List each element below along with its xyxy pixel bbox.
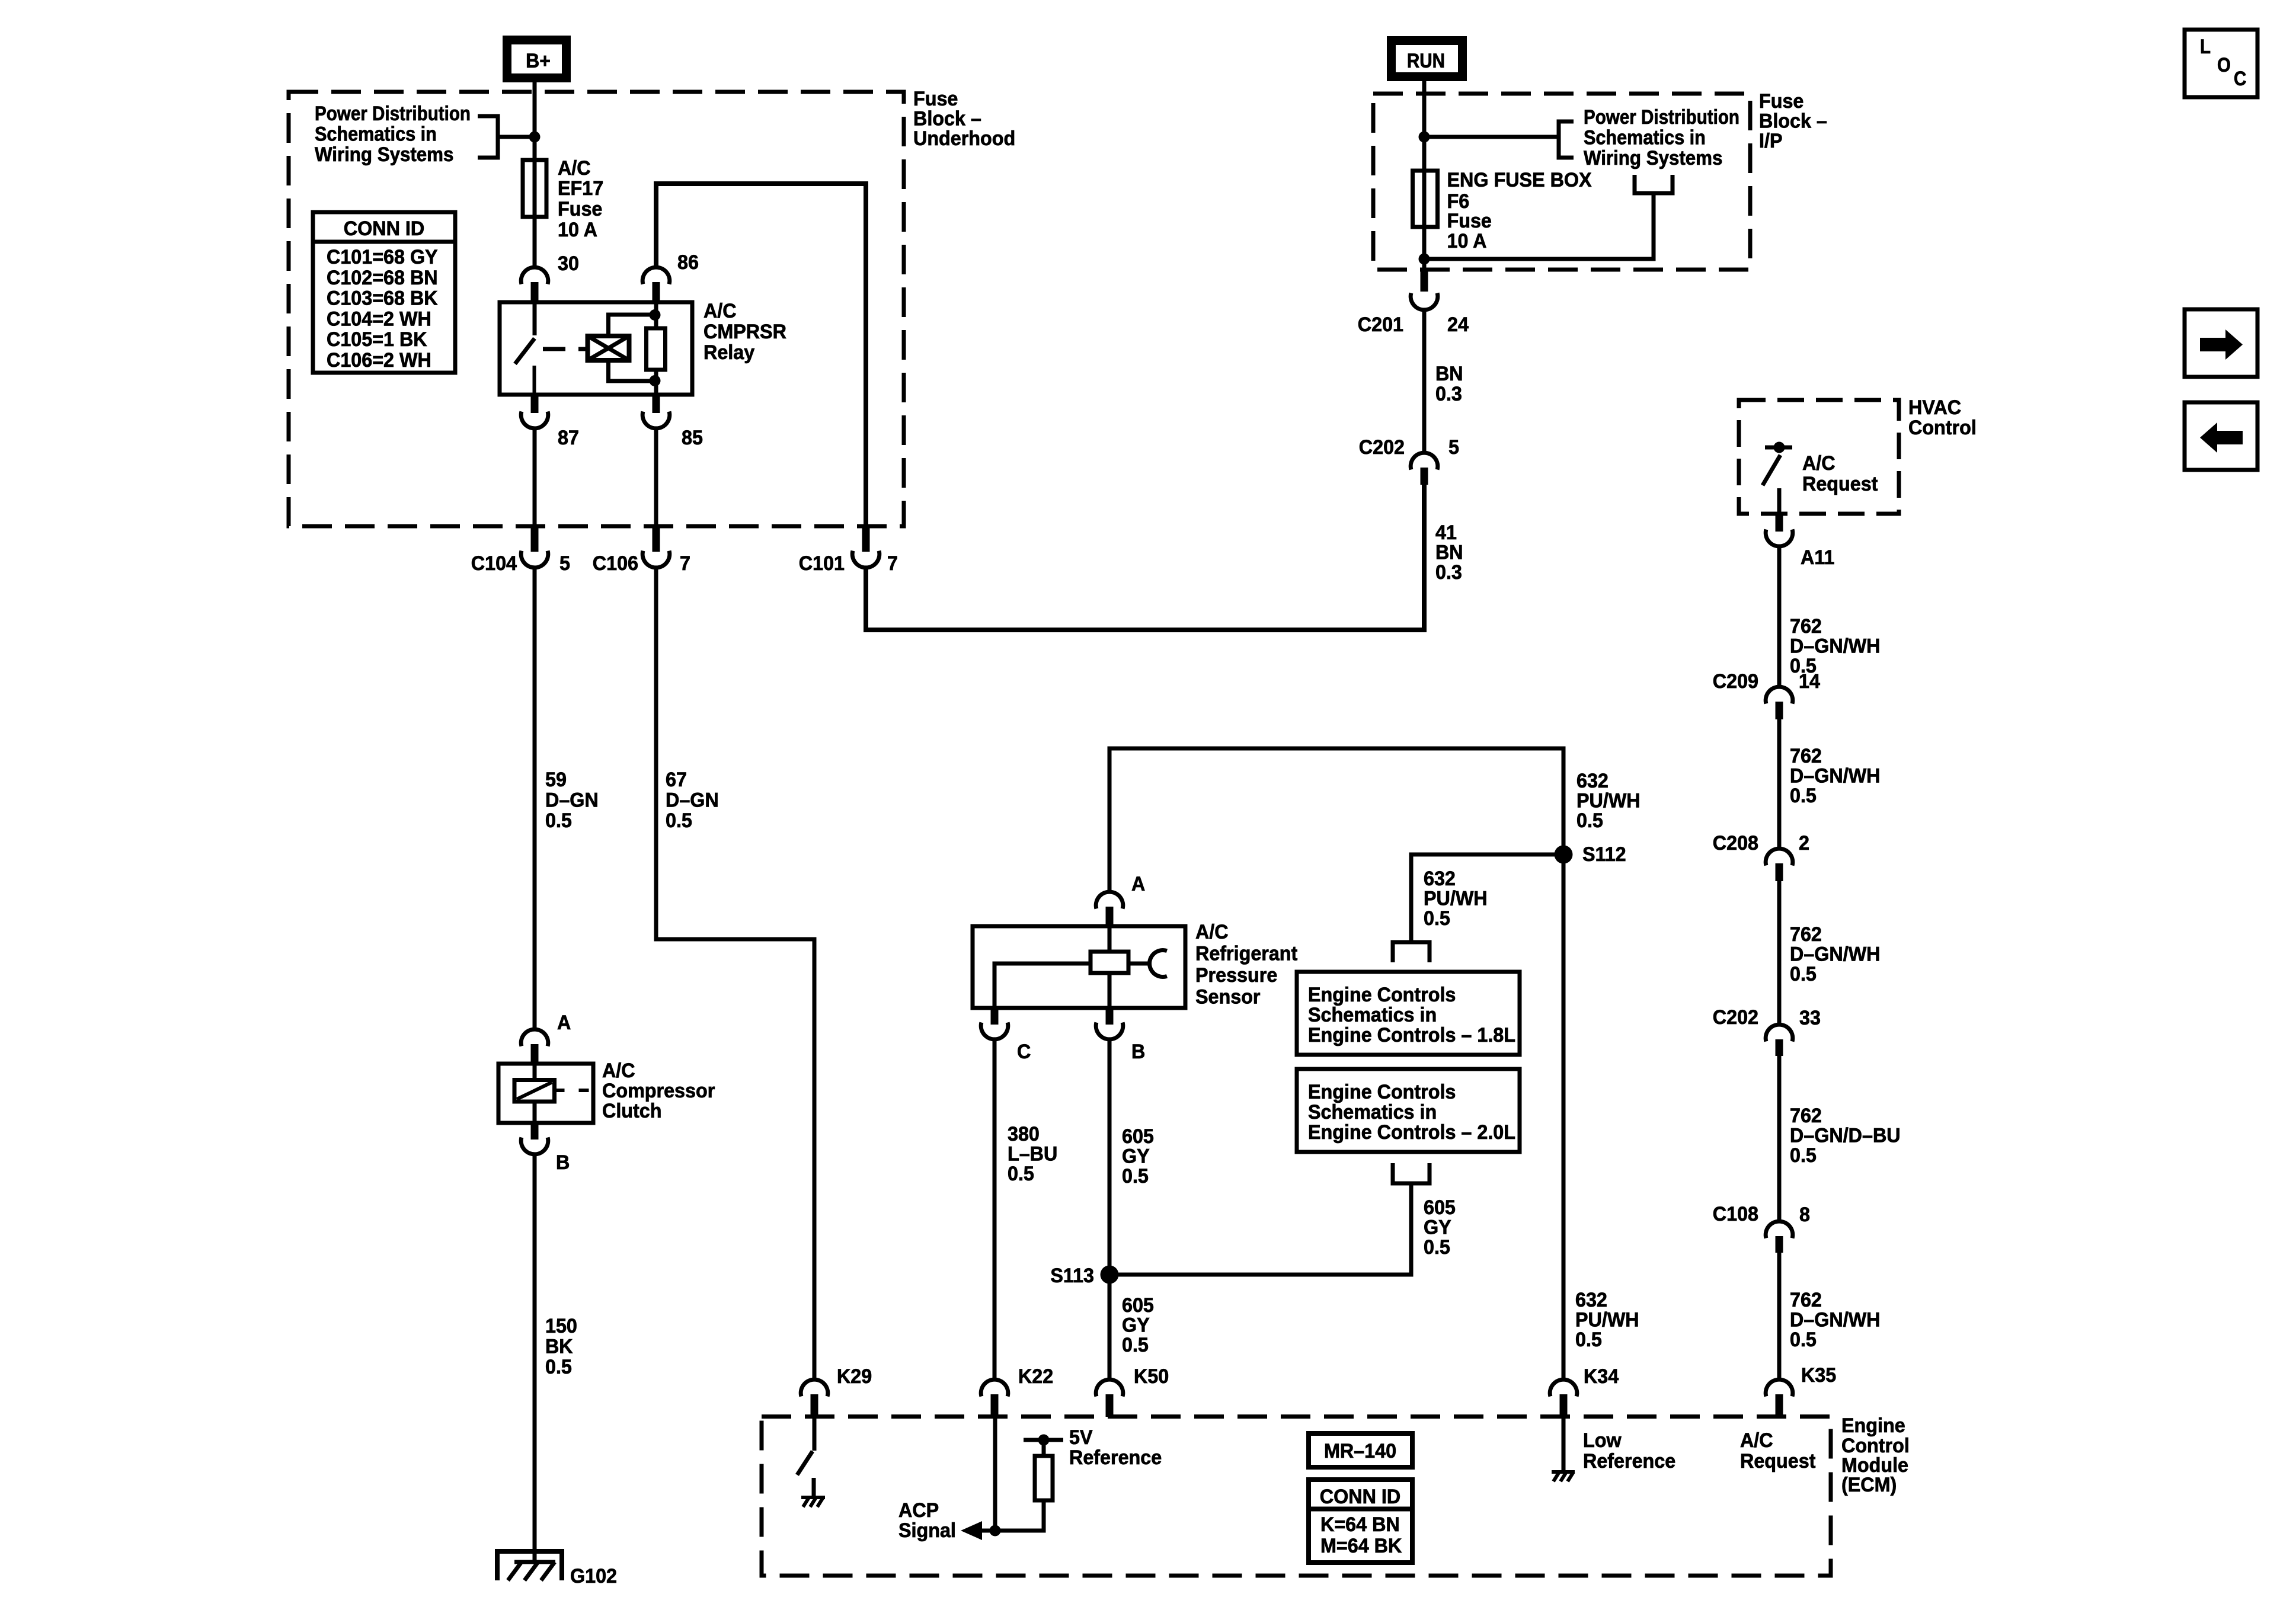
- junction dot coil top: [650, 309, 661, 321]
- label A/C refrigerant pressure sensor: [1195, 921, 1297, 1009]
- svg-text:33: 33: [1799, 1007, 1821, 1029]
- conn id table (ecm): [1309, 1480, 1412, 1563]
- svg-text:Engine Controls – 1.8L: Engine Controls – 1.8L: [1308, 1024, 1515, 1046]
- wire 762 to C108: [1777, 1056, 1782, 1221]
- svg-text:632: 632: [1575, 1289, 1607, 1311]
- label ACP Signal: [898, 1499, 956, 1542]
- svg-text:MR–140: MR–140: [1324, 1440, 1396, 1462]
- connector C104: [521, 528, 548, 568]
- A/C refrigerant pressure sensor box: [973, 926, 1185, 1008]
- svg-text:Fuse: Fuse: [913, 88, 958, 110]
- svg-text:S113: S113: [1050, 1265, 1094, 1287]
- label 5V Reference: [1069, 1426, 1162, 1469]
- svg-text:632: 632: [1576, 770, 1609, 792]
- svg-text:K=64 BN: K=64 BN: [1320, 1513, 1400, 1536]
- label A/C Compressor Clutch: [602, 1060, 715, 1122]
- off-page bracket below note: [1635, 175, 1673, 193]
- wire 762 to C208: [1777, 719, 1782, 849]
- svg-text:0.5: 0.5: [1576, 809, 1603, 832]
- svg-text:A/C: A/C: [1740, 1429, 1773, 1452]
- svg-text:C108: C108: [1713, 1203, 1758, 1225]
- svg-text:Refrigerant: Refrigerant: [1195, 943, 1297, 965]
- svg-text:C101=68 GY: C101=68 GY: [327, 246, 438, 268]
- svg-text:CMPRSR: CMPRSR: [703, 321, 786, 343]
- svg-text:10 A: 10 A: [1447, 230, 1487, 252]
- connector pin B of clutch: [521, 1123, 548, 1154]
- svg-text:Wiring Systems: Wiring Systems: [315, 143, 453, 166]
- svg-text:0.5: 0.5: [1790, 785, 1817, 807]
- svg-text:86: 86: [677, 251, 699, 274]
- svg-text:(ECM): (ECM): [1841, 1474, 1897, 1496]
- wire B+ to fuse EF17: [533, 82, 537, 267]
- svg-text:O: O: [2217, 54, 2231, 76]
- svg-text:C103=68 BK: C103=68 BK: [327, 287, 438, 310]
- wire ACP junction to resistor: [981, 1529, 1046, 1533]
- wire 41 BN 0.3 to C101 loop: [866, 485, 1424, 632]
- relay switch contact: [515, 302, 535, 395]
- sensor element: [994, 926, 1167, 1008]
- connector pin 85 of relay: [642, 393, 670, 428]
- svg-text:30: 30: [558, 252, 579, 275]
- svg-text:K34: K34: [1584, 1365, 1619, 1388]
- svg-text:C201: C201: [1358, 313, 1403, 336]
- label 762 D-GN/D-BU 0.5: [1790, 1105, 1901, 1167]
- switch pivot dot: [1774, 442, 1785, 453]
- back arrow box: [2185, 402, 2257, 470]
- fuse block I/P dashed box: [1373, 94, 1750, 270]
- svg-text:150: 150: [545, 1315, 577, 1337]
- svg-text:Fuse: Fuse: [1759, 90, 1803, 113]
- svg-text:Control: Control: [1908, 417, 1977, 439]
- svg-text:0.5: 0.5: [1790, 1329, 1817, 1351]
- connector K34: [1550, 1379, 1577, 1417]
- label fuse block underhood: [913, 88, 1015, 150]
- svg-text:K50: K50: [1134, 1365, 1169, 1388]
- svg-text:A: A: [1131, 873, 1145, 895]
- svg-text:C102=68 BN: C102=68 BN: [327, 267, 438, 289]
- svg-text:762: 762: [1790, 745, 1822, 767]
- svg-text:Wiring Systems: Wiring Systems: [1584, 147, 1722, 169]
- svg-text:Reference: Reference: [1583, 1450, 1675, 1473]
- wire 762 to C202: [1777, 881, 1782, 1025]
- label 605 GY 0.5 (sensor B): [1122, 1125, 1154, 1188]
- wire pin 87 to C104: [533, 428, 537, 526]
- svg-text:0.5: 0.5: [1790, 963, 1817, 985]
- relay linkage dashed line: [543, 347, 587, 351]
- svg-text:Schematics in: Schematics in: [1308, 1101, 1437, 1124]
- svg-text:Block –: Block –: [913, 108, 981, 130]
- HVAC control dashed box: [1739, 400, 1899, 514]
- label C101 7: [799, 552, 898, 575]
- wire S112 branch to engine controls: [1411, 854, 1563, 942]
- power symbol B+: [507, 40, 567, 78]
- fuse EF17: [523, 160, 546, 217]
- svg-text:Block –: Block –: [1759, 110, 1827, 133]
- svg-text:C202: C202: [1359, 436, 1405, 459]
- svg-text:Low: Low: [1583, 1429, 1622, 1452]
- label C201 24: [1358, 313, 1469, 336]
- svg-text:41: 41: [1435, 521, 1457, 544]
- A/C compressor clutch box: [498, 1064, 593, 1123]
- svg-text:0.5: 0.5: [1424, 907, 1450, 930]
- wire 605 GY sensor B to S113 to K50: [1108, 1039, 1112, 1379]
- off-page bracket below 2.0L box: [1393, 1163, 1430, 1183]
- label fuse block I/P: [1759, 90, 1827, 152]
- svg-text:D–GN/WH: D–GN/WH: [1790, 943, 1881, 966]
- svg-text:B: B: [556, 1151, 570, 1174]
- svg-text:GY: GY: [1424, 1217, 1451, 1239]
- connector pin C of sensor: [981, 1008, 1008, 1039]
- connector K50: [1096, 1379, 1123, 1417]
- svg-text:A/C: A/C: [602, 1060, 635, 1082]
- svg-text:B: B: [1131, 1041, 1145, 1063]
- ACP signal arrow: [961, 1521, 982, 1540]
- svg-text:C101: C101: [799, 552, 845, 575]
- svg-text:7: 7: [887, 552, 898, 575]
- svg-text:D–GN: D–GN: [666, 789, 719, 812]
- svg-text:0.5: 0.5: [1575, 1329, 1602, 1351]
- junction dot fuse output: [1419, 254, 1430, 265]
- engine controls 1.8L reference box: [1297, 972, 1520, 1055]
- svg-text:0.5: 0.5: [545, 1356, 572, 1378]
- svg-text:0.5: 0.5: [1008, 1163, 1034, 1185]
- svg-text:Compressor: Compressor: [602, 1080, 715, 1102]
- svg-text:C106: C106: [593, 552, 638, 575]
- K29 internal switch to ground: [797, 1416, 825, 1507]
- connector pin A of clutch: [521, 1029, 548, 1064]
- connector C209: [1766, 687, 1793, 719]
- A/C CMPRSR relay box: [500, 302, 692, 395]
- svg-text:0.3: 0.3: [1435, 561, 1462, 584]
- svg-text:D–GN/WH: D–GN/WH: [1790, 635, 1881, 658]
- svg-text:0.5: 0.5: [545, 809, 572, 832]
- label 59 D-GN 0.5: [545, 769, 599, 832]
- svg-text:762: 762: [1790, 1289, 1822, 1311]
- label HVAC Control: [1908, 396, 1977, 439]
- off-page bracket above 1.8L box: [1393, 942, 1430, 962]
- svg-text:BN: BN: [1435, 542, 1463, 564]
- svg-text:C208: C208: [1713, 832, 1758, 854]
- svg-text:CONN ID: CONN ID: [1320, 1486, 1400, 1508]
- svg-text:D–GN: D–GN: [545, 789, 599, 812]
- connector C101: [852, 528, 880, 568]
- wire 150 BK to ground: [533, 1154, 537, 1562]
- svg-text:G102: G102: [570, 1565, 617, 1587]
- svg-text:Request: Request: [1802, 473, 1878, 495]
- svg-text:Engine Controls: Engine Controls: [1308, 1081, 1456, 1103]
- svg-text:A/C: A/C: [1195, 921, 1229, 943]
- connector pin 30 of relay: [521, 267, 548, 302]
- svg-text:PU/WH: PU/WH: [1575, 1309, 1639, 1331]
- svg-text:Schematics in: Schematics in: [1308, 1004, 1437, 1026]
- svg-text:K29: K29: [837, 1365, 872, 1388]
- label C208 2: [1713, 832, 1809, 854]
- label engine control module ECM: [1841, 1414, 1910, 1496]
- svg-text:Relay: Relay: [703, 341, 754, 364]
- ECM pull-up resistor: [1035, 1440, 1053, 1531]
- label C104 5: [471, 552, 570, 575]
- wire 762 to C209: [1777, 546, 1782, 687]
- svg-text:L–BU: L–BU: [1008, 1143, 1057, 1166]
- connector pin 87 of relay: [521, 393, 548, 428]
- 5V reference terminal tick: [1024, 1438, 1063, 1442]
- svg-text:762: 762: [1790, 615, 1822, 638]
- junction dot on B+ wire: [529, 132, 541, 143]
- label Low Reference: [1583, 1429, 1675, 1473]
- ground G102: [497, 1551, 562, 1580]
- svg-text:Engine Controls: Engine Controls: [1308, 984, 1456, 1006]
- label 632 PU/WH 0.5 (upper): [1576, 770, 1641, 832]
- svg-text:ACP: ACP: [898, 1499, 939, 1522]
- connector K29: [801, 1379, 828, 1417]
- svg-text:C202: C202: [1713, 1006, 1758, 1029]
- label 762 D-GN/WH 0.5 (d): [1790, 1289, 1881, 1351]
- label engine controls 2.0L: [1308, 1081, 1515, 1144]
- svg-text:605: 605: [1122, 1294, 1154, 1317]
- svg-text:A: A: [557, 1012, 571, 1034]
- connector K22: [981, 1379, 1008, 1417]
- svg-text:5V: 5V: [1069, 1426, 1093, 1449]
- junction dot run wire: [1419, 132, 1430, 143]
- svg-text:L: L: [2200, 36, 2211, 58]
- svg-text:762: 762: [1790, 1105, 1822, 1127]
- conn id table: [313, 212, 455, 373]
- svg-text:D–GN/WH: D–GN/WH: [1790, 765, 1881, 788]
- label ENG FUSE BOX F6 Fuse 10 A: [1447, 169, 1592, 252]
- connector C106: [642, 528, 670, 568]
- connector C202 (hvac chain): [1766, 1025, 1793, 1056]
- svg-text:10 A: 10 A: [558, 219, 597, 241]
- label 41 BN 0.3: [1435, 521, 1463, 584]
- wire relay pin 86 loop to C101: [656, 184, 866, 526]
- engine controls 2.0L reference box: [1297, 1069, 1520, 1152]
- svg-text:0.5: 0.5: [1122, 1165, 1149, 1188]
- svg-text:D–GN/WH: D–GN/WH: [1790, 1309, 1881, 1331]
- connector C208: [1766, 849, 1793, 881]
- power symbol RUN: [1392, 41, 1463, 77]
- svg-text:C: C: [1017, 1041, 1031, 1063]
- engine control module dashed box: [762, 1417, 1831, 1576]
- connector A11: [1766, 514, 1793, 546]
- svg-text:Schematics in: Schematics in: [315, 123, 437, 146]
- wire BN 0.3: [1422, 309, 1427, 453]
- svg-text:S112: S112: [1582, 843, 1626, 866]
- svg-text:Underhood: Underhood: [913, 127, 1015, 150]
- svg-text:A/C: A/C: [558, 157, 591, 180]
- label 762 D-GN/WH 0.5 (b): [1790, 745, 1881, 807]
- fuse block underhood dashed box: [289, 92, 904, 526]
- svg-text:0.5: 0.5: [1122, 1334, 1149, 1356]
- forward arrow box: [2185, 309, 2257, 377]
- A/C request switch: [1763, 447, 1792, 514]
- svg-text:380: 380: [1008, 1123, 1040, 1145]
- label 632 PU/WH 0.5 (lower): [1575, 1289, 1639, 1351]
- svg-text:GY: GY: [1122, 1314, 1150, 1337]
- connector pin A of sensor: [1096, 892, 1123, 926]
- svg-text:D–GN/D–BU: D–GN/D–BU: [1790, 1125, 1901, 1147]
- svg-text:14: 14: [1799, 670, 1820, 693]
- svg-text:0.3: 0.3: [1435, 383, 1462, 405]
- svg-text:C106=2 WH: C106=2 WH: [327, 349, 431, 372]
- connector pin B of sensor: [1096, 1008, 1123, 1039]
- wire 762 to K35: [1777, 1253, 1782, 1379]
- junction dot 5V: [1038, 1435, 1050, 1446]
- svg-text:BN: BN: [1435, 363, 1463, 385]
- svg-text:Power Distribution: Power Distribution: [1584, 106, 1739, 129]
- bracket to note (right): [1559, 121, 1574, 158]
- note: power distribution schematics in wiring systems (left): [315, 103, 471, 166]
- label C202 33: [1713, 1006, 1821, 1029]
- svg-text:67: 67: [666, 769, 687, 791]
- svg-text:A/C: A/C: [703, 300, 737, 322]
- label 762 D-GN/WH 0.5 (a): [1790, 615, 1881, 677]
- svg-text:RUN: RUN: [1407, 50, 1445, 72]
- connector C201: [1411, 270, 1438, 310]
- svg-text:CONN ID: CONN ID: [344, 217, 424, 240]
- svg-text:762: 762: [1790, 923, 1822, 946]
- svg-text:C104=2 WH: C104=2 WH: [327, 308, 431, 330]
- label 150 BK 0.5: [545, 1315, 577, 1378]
- label C108 8: [1713, 1203, 1810, 1226]
- svg-text:HVAC: HVAC: [1908, 396, 1961, 419]
- svg-text:5: 5: [559, 552, 570, 575]
- svg-text:0.5: 0.5: [1790, 1144, 1817, 1167]
- svg-text:0.5: 0.5: [1424, 1236, 1450, 1259]
- svg-text:Pressure: Pressure: [1195, 964, 1277, 987]
- label 762 D-GN/WH 0.5 (c): [1790, 923, 1881, 985]
- label BN 0.3: [1435, 363, 1463, 405]
- wire sensor pin A to S112 to K34: [1109, 748, 1563, 1379]
- svg-text:C105=1 BK: C105=1 BK: [327, 328, 427, 351]
- label engine controls 1.8L: [1308, 984, 1515, 1046]
- svg-text:85: 85: [682, 427, 703, 449]
- svg-text:C104: C104: [471, 552, 517, 575]
- label A/C Request (hvac): [1802, 452, 1878, 495]
- wire 380 L-BU to K22: [993, 1039, 997, 1379]
- svg-text:PU/WH: PU/WH: [1424, 888, 1488, 910]
- svg-text:K22: K22: [1018, 1365, 1053, 1388]
- svg-text:8: 8: [1799, 1204, 1810, 1226]
- wire 67 D-GN from C106 to K29: [656, 567, 814, 1379]
- fuse F6: [1413, 171, 1438, 227]
- LOC reference box: [2185, 30, 2257, 97]
- svg-text:ENG FUSE BOX: ENG FUSE BOX: [1447, 169, 1592, 191]
- svg-text:24: 24: [1447, 313, 1469, 336]
- wire RUN to fuse F6: [1422, 81, 1427, 270]
- svg-text:87: 87: [558, 427, 579, 449]
- svg-text:C209: C209: [1713, 670, 1758, 693]
- svg-text:B+: B+: [526, 50, 551, 72]
- junction dot ACP: [990, 1525, 1001, 1537]
- label A/C Request (ecm): [1740, 1429, 1815, 1473]
- label C209 14: [1713, 670, 1820, 693]
- connector pin 86 of relay: [642, 267, 670, 302]
- MR-140 box: [1309, 1433, 1412, 1467]
- label 632 PU/WH 0.5 (branch): [1424, 868, 1488, 930]
- label 67 D-GN 0.5: [666, 769, 719, 832]
- svg-text:EF17: EF17: [558, 177, 603, 200]
- clutch coil element: [514, 1064, 593, 1123]
- svg-text:Engine: Engine: [1841, 1414, 1905, 1437]
- relay resistor: [647, 302, 666, 395]
- label 380 L-BU 0.5: [1008, 1123, 1057, 1185]
- svg-text:7: 7: [680, 552, 690, 575]
- splice S112: [1555, 846, 1573, 864]
- connector C202: [1411, 453, 1438, 485]
- note: power distribution schematics in wiring systems (right): [1584, 106, 1739, 169]
- junction dot coil bottom: [650, 375, 661, 386]
- svg-text:Reference: Reference: [1069, 1446, 1162, 1469]
- svg-text:632: 632: [1424, 868, 1456, 890]
- svg-text:Signal: Signal: [898, 1519, 956, 1542]
- svg-text:605: 605: [1122, 1125, 1154, 1148]
- relay coil: [588, 315, 655, 381]
- svg-text:Schematics in: Schematics in: [1584, 127, 1706, 149]
- svg-text:Fuse: Fuse: [558, 198, 602, 220]
- svg-text:K35: K35: [1801, 1364, 1836, 1387]
- svg-text:Clutch: Clutch: [602, 1100, 662, 1122]
- svg-text:Sensor: Sensor: [1195, 986, 1261, 1009]
- connector C108: [1766, 1221, 1793, 1253]
- svg-text:Fuse: Fuse: [1447, 210, 1492, 232]
- svg-text:A11: A11: [1801, 546, 1835, 569]
- bracket from note to B+ wire: [478, 116, 535, 158]
- wire 59 D-GN to clutch pin A: [533, 567, 537, 1029]
- svg-text:Request: Request: [1740, 1450, 1815, 1473]
- svg-text:M=64 BK: M=64 BK: [1320, 1535, 1402, 1557]
- svg-text:GY: GY: [1122, 1145, 1150, 1168]
- svg-text:605: 605: [1424, 1196, 1456, 1219]
- splice S113: [1101, 1266, 1119, 1284]
- svg-text:Power Distribution: Power Distribution: [315, 103, 471, 125]
- svg-text:5: 5: [1448, 436, 1459, 459]
- label C202 5: [1359, 436, 1459, 459]
- svg-text:A/C: A/C: [1802, 452, 1835, 475]
- label 605 GY 0.5 (2.0L): [1424, 1196, 1456, 1259]
- label A/C CMPRSR Relay: [703, 300, 786, 364]
- K34 internal ground: [1552, 1417, 1575, 1481]
- svg-text:0.5: 0.5: [666, 809, 692, 832]
- wire K22 to ACP junction: [993, 1416, 997, 1531]
- wire to right bracket: [1424, 135, 1559, 139]
- wire 2.0L to S113: [1109, 1183, 1411, 1275]
- wire pin 85 to C106: [654, 428, 658, 526]
- svg-text:59: 59: [545, 769, 567, 791]
- svg-text:BK: BK: [545, 1336, 573, 1358]
- wire off-page bracket to fuse output: [1424, 193, 1654, 259]
- label A/C EF17 Fuse 10 A: [558, 157, 603, 241]
- svg-text:Engine Controls – 2.0L: Engine Controls – 2.0L: [1308, 1121, 1515, 1144]
- label C106 7: [593, 552, 690, 575]
- connector K35: [1766, 1379, 1793, 1417]
- svg-text:C: C: [2234, 68, 2246, 90]
- svg-text:PU/WH: PU/WH: [1576, 790, 1641, 812]
- svg-text:2: 2: [1799, 832, 1809, 854]
- label 605 GY 0.5 (below S113): [1122, 1294, 1154, 1356]
- svg-text:I/P: I/P: [1759, 130, 1783, 152]
